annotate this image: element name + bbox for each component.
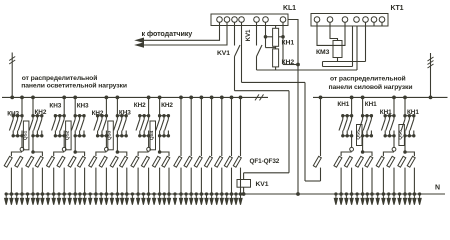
label 'панели силовой нагрузки' (right line2) <box>329 83 413 91</box>
junction bus drop KH3 unit4 <box>147 96 150 99</box>
contactor contacts KH3 unit4 (3-phase) <box>136 115 150 138</box>
label KH2 unit2 <box>77 103 89 110</box>
feeder wire x=351.6 to N bus <box>351 168 353 194</box>
contactor contacts KH1 r2 (3-phase) <box>359 115 373 138</box>
group output stub rg2 pair1 <box>404 136 406 152</box>
wire rail y=82.4 <box>242 81 306 83</box>
contactor contacts KH3 unit2 (3-phase) <box>52 115 66 138</box>
junction feeder-N x=11.4 <box>10 193 13 196</box>
stub junction x=143.4 <box>142 193 144 195</box>
stub junction x=154.1 <box>153 193 155 195</box>
label QS4 (rotated) <box>149 130 155 140</box>
junction bus drop x=181 <box>180 96 183 99</box>
wire KH1 coil top stub <box>275 26 277 29</box>
contactor contacts KH1 r3 (3-phase) <box>381 115 395 138</box>
stub junction x=367.3 <box>366 193 368 195</box>
wire KL1 pin7 down <box>282 22 284 64</box>
bus drop to KH2 group unit4 <box>159 97 161 115</box>
wire KH1-KH2 link <box>275 46 277 49</box>
wire KL1 pin3 upper segment <box>234 22 236 45</box>
junction on pin6 wire <box>264 36 267 39</box>
svg-text:KV1: KV1 <box>217 50 230 57</box>
load arrow x=186.1 <box>185 194 188 205</box>
contactor contacts KH2 unit3 (3-phase) <box>114 115 128 138</box>
breaker QF column x=95.9 <box>89 156 97 167</box>
label KH2 unit3 <box>119 110 131 117</box>
bus drop column x=211.6 <box>211 97 213 156</box>
terminal circle KL1 pin 5 <box>254 17 260 23</box>
load arrow x=27.5 <box>26 194 29 205</box>
stub junction x=419.6 <box>418 193 420 195</box>
arrowhead to photo-sensor (lower) <box>136 43 144 47</box>
distribution bar g2 unit3 <box>117 152 126 156</box>
stub junction x=79.9 <box>79 193 81 195</box>
load arrow x=95.9 <box>94 194 97 205</box>
distribution bar g1 unit3 <box>96 152 107 156</box>
bus drop to KH2 group unit2 <box>74 97 76 115</box>
feeder wire x=231.5 to N bus <box>231 168 233 194</box>
load arrow x=226.7 <box>225 194 228 205</box>
supply feed (power) with break <box>428 53 434 97</box>
breaker QF column x=64.2 <box>57 156 65 167</box>
feeder wire x=64.2 to N bus <box>63 168 65 194</box>
load arrow x=37.7 <box>36 194 39 205</box>
stub junction x=69.7 <box>69 193 71 195</box>
feeder wire x=148.60000000000002 to N bus <box>148 168 150 194</box>
junction bar tap g2 unit2 <box>74 151 77 154</box>
distribution bar g2 unit1 <box>33 152 42 156</box>
load arrow x=101.2 <box>100 194 103 205</box>
wire KM3 bottom stub <box>337 58 339 62</box>
breaker QF column x=22.0 <box>15 156 23 167</box>
disconnector box QS3 <box>108 121 114 150</box>
group output stub g2 unit4 <box>159 136 161 152</box>
load arrow x=201.4 <box>200 194 203 205</box>
load arrow x=346.4 <box>345 194 348 205</box>
feeder wire x=211.6 to N bus <box>211 168 213 194</box>
load arrow x=16.7 <box>15 194 18 205</box>
group output stub g2 unit3 <box>116 136 118 152</box>
tap to KH1 coil right <box>279 36 283 38</box>
feeder wire x=341.1 to N bus <box>340 168 342 194</box>
indicator coil KH1 <box>273 28 279 46</box>
disconnector box QS5 <box>357 125 363 146</box>
load arrow x=69.7 <box>68 194 71 205</box>
wire down x=289 <box>288 91 290 173</box>
breaker QF column x=341.1 <box>334 156 342 167</box>
breaker QF column x=383.4 <box>376 156 384 167</box>
breaker QF column x=181 <box>174 156 182 167</box>
wire pin6 jog to coil centre <box>266 47 276 49</box>
label KH1 r1 <box>337 101 349 108</box>
load arrow x=414.4 <box>413 194 416 205</box>
load arrow x=206.5 <box>205 194 208 205</box>
stub junction x=346.4 <box>345 193 347 195</box>
label KH1 r4 <box>407 109 419 116</box>
terminal circle KT1 pin 5 <box>363 17 369 23</box>
junction bar tap g2 unit1 <box>32 151 35 154</box>
group output stub g1 unit1 <box>21 136 23 148</box>
indicator coil KH2 <box>273 49 279 67</box>
wire KT1 pin7 stub <box>381 22 383 26</box>
load arrow x=405 <box>403 194 406 205</box>
load arrow x=221.8 <box>220 194 223 205</box>
breaker QF (control feed) <box>313 156 321 167</box>
breaker QF column x=126.8 <box>120 156 128 167</box>
label QS6 (rotated) <box>398 130 404 140</box>
load arrow x=6.2 <box>5 194 8 205</box>
breaker QF column x=117.4 <box>110 156 118 167</box>
load arrow x=143.4 <box>142 194 145 205</box>
junction bus drop KH3 unit1 <box>21 96 24 99</box>
contactor contacts KH2 unit1 (3-phase) <box>29 115 43 138</box>
svg-text:от распределительной: от распределительной <box>330 75 406 83</box>
terminal circle KT1 pin 6 <box>371 17 377 23</box>
load arrow x=388.7 <box>387 194 390 205</box>
load arrow x=231.5 <box>230 194 233 205</box>
terminal circle KL1 pin 7 <box>280 17 286 23</box>
junction bus drop x=240.5 <box>239 96 242 99</box>
junction bus drop KH2 unit1 <box>32 96 35 99</box>
breaker QF column x=231.5 <box>224 156 232 167</box>
wire V2 down x=305 <box>304 82 306 181</box>
label KV1 (second contact, rotated) <box>245 29 252 41</box>
wire rail B up to KT1 <box>356 26 358 70</box>
svg-text:КН1: КН1 <box>337 101 349 108</box>
svg-text:KV1: KV1 <box>256 181 269 188</box>
terminal circle KT1 pin 3 <box>342 17 348 23</box>
label KH2 unit1 <box>35 109 47 116</box>
stub junction x=132.4 <box>131 193 133 195</box>
lighting bus <box>2 94 268 100</box>
contactor contacts KH2 unit4 (3-phase) <box>156 115 170 138</box>
svg-text:панели силовой нагрузки: панели силовой нагрузки <box>329 83 413 91</box>
junction feeder-N x=148.60000000000002 <box>147 193 150 196</box>
wire V2 bottom jog <box>305 180 321 182</box>
junction bar tap rg2 pair1 <box>404 151 407 154</box>
terminal circle KT1 pin 2 <box>327 17 333 23</box>
label KV1 (first contact) <box>217 50 230 57</box>
load arrow x=216.7 <box>215 194 218 205</box>
svg-text:KT1: KT1 <box>391 5 404 12</box>
junction feeder-N x=394 <box>393 193 396 196</box>
feeder wire x=42.4 to N bus <box>41 168 43 194</box>
load arrow x=351.6 <box>350 194 353 205</box>
stub junction x=196.3 <box>195 193 197 195</box>
stub junction x=164.3 <box>163 193 165 195</box>
bus drop column x=181 <box>180 97 182 156</box>
stub junction x=175.0 <box>174 193 176 195</box>
load arrow x=22.0 <box>20 194 23 205</box>
disconnector box QS2 <box>66 121 72 150</box>
feeder wire x=201.4 to N bus <box>200 168 202 194</box>
stub junction x=59.0 <box>58 193 60 195</box>
label KH1 r2 <box>365 101 377 108</box>
arrowhead to photo-sensor (upper) <box>136 38 144 42</box>
bus drop column x=221.8 <box>221 97 223 156</box>
svg-text:к фотодатчику: к фотодатчику <box>142 29 193 38</box>
wire KL1 pin2 to photo-sensor (lower) <box>138 22 228 45</box>
distribution bar g2 unit2 <box>75 152 84 156</box>
stub junction x=6.2 <box>5 193 7 195</box>
group output stub rg1 pair0 <box>351 136 353 148</box>
feeder wire x=75.2 to N bus <box>74 168 76 194</box>
load arrow x=335.9 <box>334 194 337 205</box>
svg-text:QS1: QS1 <box>22 130 28 140</box>
stub junction x=16.7 <box>16 193 18 195</box>
junction feeder-N x=341.1 <box>340 193 343 196</box>
label KH2 unit4 <box>161 102 173 109</box>
wire rail y=90.7 to right <box>235 90 290 92</box>
terminal circle tap g1 unit2 <box>62 147 66 151</box>
stub junction x=216.7 <box>216 193 218 195</box>
junction bus drop x=211.6 <box>210 96 213 99</box>
stub junction x=90.2 <box>89 193 91 195</box>
junction feeder-N x=138.1 <box>137 193 140 196</box>
label KT1 <box>391 5 404 12</box>
wire KL1 pin5 upper segment <box>256 22 258 45</box>
svg-text:QS4: QS4 <box>149 130 155 140</box>
load arrow x=419.6 <box>418 194 421 205</box>
load arrow x=377.7 <box>376 194 379 205</box>
junction feeder-N x=169.0 <box>168 193 171 196</box>
label KH3 unit3 <box>92 110 104 117</box>
load arrow x=64.2 <box>63 194 66 205</box>
label 'от распределительной' (left line1) <box>22 74 98 82</box>
label N <box>435 185 440 192</box>
breaker QF column x=75.2 <box>68 156 76 167</box>
wire KH2 bottom stub <box>275 67 277 70</box>
stub junction x=206.5 <box>205 193 207 195</box>
junction bus drop KH3 unit3 <box>105 96 108 99</box>
contact KV1 (first, blade) <box>235 45 241 57</box>
svg-text:КН3: КН3 <box>49 103 61 110</box>
neutral bus N <box>6 193 445 195</box>
junction feeder-N x=117.4 <box>116 193 119 196</box>
junction feeder-N x=84.6 <box>83 193 86 196</box>
load arrow x=111.9 <box>110 194 113 205</box>
junction feeder-N x=22.0 <box>21 193 24 196</box>
load arrow x=169.0 <box>167 194 170 205</box>
load arrow x=191.2 <box>190 194 193 205</box>
breaker QF column x=362.6 <box>355 156 363 167</box>
distribution bar g1 unit4 <box>138 152 149 156</box>
junction power feed on bus <box>429 96 432 99</box>
feeder wire x=53.7 to N bus <box>53 168 55 194</box>
load arrow x=240.5 <box>239 194 242 205</box>
load arrow x=117.4 <box>116 194 119 205</box>
load arrow x=59.0 <box>57 194 60 205</box>
load arrow x=42.4 <box>41 194 44 205</box>
junction V1-N <box>297 193 300 196</box>
feeder wire x=221.8 to N bus <box>221 168 223 194</box>
breaker QF column x=405 <box>398 156 406 167</box>
junction feeder-N x=159.60000000000002 <box>158 193 161 196</box>
wire KT1 pin2 down <box>330 22 338 40</box>
group output stub g2 unit2 <box>74 136 76 152</box>
junction feeder-N x=181 <box>180 193 183 196</box>
terminal circle KL1 pin 4 <box>239 17 245 23</box>
feeder wire x=372.0 to N bus <box>371 168 373 194</box>
wire KL1 pin5 down <box>256 57 258 71</box>
junction feeder-N x=64.2 <box>63 193 66 196</box>
feeder wire x=169.0 to N bus <box>168 168 170 194</box>
feeder wire x=33.0 to N bus <box>32 168 34 194</box>
stub junction x=399.5 <box>398 193 400 195</box>
breaker QF column x=53.7 <box>47 156 55 167</box>
contact KV1 (second, blade) <box>257 45 263 57</box>
junction bus drop r4 <box>404 96 407 99</box>
contactor contacts KH3 unit1 (3-phase) <box>9 115 23 138</box>
breaker QF column x=414.4 <box>407 156 415 167</box>
load arrow x=196.3 <box>195 194 198 205</box>
distribution bar g1 unit1 <box>11 152 22 156</box>
load arrow x=75.2 <box>74 194 77 205</box>
svg-text:N: N <box>435 185 440 192</box>
svg-text:КН2: КН2 <box>134 102 146 109</box>
junction bus drop KH2 unit3 <box>116 96 119 99</box>
breaker QF column x=42.4 <box>35 156 43 167</box>
svg-text:КМ3: КМ3 <box>316 49 330 56</box>
load arrow x=11.4 <box>10 194 13 205</box>
load arrow x=372.0 <box>370 194 373 205</box>
breaker QF column x=106.4 <box>99 156 107 167</box>
group output stub rg1 pair1 <box>393 136 395 148</box>
junction lighting feed on bus <box>11 96 14 99</box>
bus drop column x=201.4 <box>200 97 202 156</box>
label QS1 (rotated) <box>22 130 28 140</box>
stub junction x=48.0 <box>47 193 49 195</box>
feeder wire x=414.4 to N bus <box>413 168 415 194</box>
load arrow x=211.6 <box>210 194 213 205</box>
bus drop to KH1 group r3 <box>393 97 395 115</box>
bus drop column x=231.5 <box>231 97 233 156</box>
wire KL1 pin4 down <box>241 22 243 82</box>
load arrow x=132.4 <box>131 194 134 205</box>
distribution bar rg1 pair1 <box>383 152 394 156</box>
bus drop column x=191.2 <box>190 97 192 156</box>
wire pin7 to V1 <box>283 64 298 66</box>
feeder wire x=181 to N bus <box>180 168 182 194</box>
load arrow x=164.3 <box>163 194 166 205</box>
load arrow x=159.60000000000002 <box>158 194 161 205</box>
feeder wire x=383.4 to N bus <box>382 168 384 194</box>
load arrow x=362.6 <box>361 194 364 205</box>
stub junction x=101.2 <box>100 193 102 195</box>
junction feeder-N x=191.2 <box>190 193 193 196</box>
stub junction x=37.7 <box>37 193 39 195</box>
bus drop to KH3 group unit4 <box>148 97 150 115</box>
bus drop to KH2 group unit1 <box>32 97 34 115</box>
breaker QF column x=394 <box>387 156 395 167</box>
breaker QF column x=372.0 <box>365 156 373 167</box>
junction feeder-N x=42.4 <box>41 193 44 196</box>
bus drop to KH3 group unit2 <box>63 97 65 115</box>
feeder wire x=126.8 to N bus <box>126 168 128 194</box>
junction bus drop x=191.2 <box>190 96 193 99</box>
load arrow x=341.1 <box>340 194 343 205</box>
label QS5 (rotated) <box>355 130 361 140</box>
junction feeder-N x=405 <box>404 193 407 196</box>
wire rail y=61.5 KM3 to pin5 <box>323 61 366 63</box>
feeder wire x=117.4 to N bus <box>116 168 118 194</box>
load arrow x=79.9 <box>78 194 81 205</box>
contactor contacts KH2 unit2 (3-phase) <box>71 115 85 138</box>
junction QF tap on power bus <box>319 96 322 99</box>
breaker QF column x=201.4 <box>194 156 202 167</box>
wire KT1 pin6 stub <box>373 22 375 26</box>
load arrow x=175.0 <box>173 194 176 205</box>
group output stub g2 unit1 <box>32 136 34 152</box>
wire rail y=172.8 to KV1 coil <box>244 172 289 174</box>
junction bus drop KH2 unit2 <box>74 96 77 99</box>
terminal circle tap g1 unit3 <box>105 147 109 151</box>
feeder wire x=22.0 to N bus <box>21 168 23 194</box>
svg-text:панели осветительной нагрузки: панели осветительной нагрузки <box>21 82 127 90</box>
power bus <box>313 96 448 98</box>
wire rail up to KT1 pin5 <box>365 22 367 61</box>
junction bus drop r2 <box>361 96 364 99</box>
contactor contacts KH1 r4 (3-phase) <box>401 115 415 138</box>
wire rail jog down at x=322.5 <box>322 62 324 67</box>
distribution bar g1 unit2 <box>54 152 64 156</box>
feeder wire x=106.4 to N bus <box>105 168 107 194</box>
load arrow x=367.3 <box>366 194 369 205</box>
relay coil KV1 <box>237 180 251 188</box>
junction bus drop x=231.5 <box>230 96 233 99</box>
label KM3 <box>316 49 330 56</box>
breaker QF column x=33.0 <box>26 156 34 167</box>
junction feeder-N x=75.2 <box>74 193 77 196</box>
svg-text:QS5: QS5 <box>355 130 361 140</box>
svg-text:от распределительной: от распределительной <box>22 74 98 82</box>
svg-text:QS6: QS6 <box>398 130 404 140</box>
junction feeder-N x=126.8 <box>126 193 129 196</box>
load arrow x=154.1 <box>153 194 156 205</box>
load arrow x=236.0 <box>234 194 237 205</box>
load arrow x=126.8 <box>125 194 128 205</box>
junction bus drop KH2 unit4 <box>158 96 161 99</box>
wire KL1 pin3 down <box>234 57 236 91</box>
label KV1 (coil) <box>256 181 269 188</box>
feeder wire x=405 to N bus <box>404 168 406 194</box>
feeder wire x=394 to N bus <box>393 168 395 194</box>
label KH3 unit4 <box>134 102 146 109</box>
distribution bar g2 unit4 <box>160 152 169 156</box>
junction feeder-N x=414.4 <box>413 193 416 196</box>
load arrow x=106.4 <box>105 194 108 205</box>
tap to KH1 coil left <box>266 36 273 38</box>
stub junction x=409.7 <box>409 193 411 195</box>
junction feeder-N x=211.6 <box>210 193 213 196</box>
junction feeder-N x=106.4 <box>105 193 108 196</box>
junction KV1-N <box>242 193 245 196</box>
load arrow x=357.1 <box>356 194 359 205</box>
terminal circle KT1 pin 7 <box>379 17 385 23</box>
relay block KL1 (terminal box) <box>211 14 288 26</box>
svg-text:КН1: КН1 <box>365 101 377 108</box>
junction feeder-N x=351.6 <box>350 193 353 196</box>
contactor coil KM3 <box>333 41 342 58</box>
terminal circle KL1 pin 1 <box>217 17 223 23</box>
wire KV1 coil to N bus <box>243 187 245 194</box>
contactor contacts KH1 r1 (3-phase) <box>339 115 353 138</box>
feeder wire x=362.6 to N bus <box>362 168 364 194</box>
load arrow x=383.4 <box>382 194 385 205</box>
stub junction x=27.5 <box>26 193 28 195</box>
breaker QF column x=169.0 <box>162 156 170 167</box>
breaker QF column x=138.1 <box>131 156 139 167</box>
